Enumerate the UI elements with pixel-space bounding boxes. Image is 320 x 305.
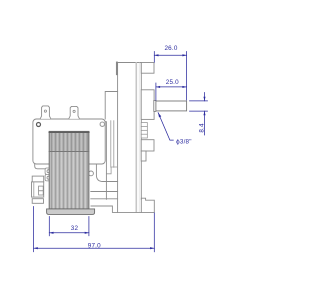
output shaft (156, 101, 187, 111)
stator top dark edge (49, 131, 89, 133)
screw right (100, 122, 104, 126)
lower block (141, 140, 154, 151)
bump inner detail (39, 186, 44, 191)
right bobbin clip circle (89, 171, 94, 176)
arrowheads (34, 54, 206, 249)
svg-text:32: 32 (71, 225, 79, 232)
bump inner vline (33, 183, 35, 197)
screw left (37, 123, 41, 127)
arrows 32 (49, 232, 53, 234)
dim 26.0 extension left (153, 52, 155, 63)
case lower lines right (91, 191, 118, 193)
dim 8.4 ext top (190, 100, 208, 102)
thick edge segment at plate top left (116, 63, 118, 75)
terminal tab 1 (40, 106, 51, 119)
stator mid line (49, 151, 89, 153)
terminal tab 2 (69, 106, 80, 119)
left case corner below plate (35, 165, 46, 169)
shaft washer (154, 100, 156, 111)
arrows 25.0 (156, 86, 160, 88)
gearbox case bottom right (96, 165, 117, 182)
arrows 97.0 (34, 247, 38, 249)
rear plate inner line (135, 63, 137, 212)
bump base flange (32, 199, 43, 204)
top flange boss (141, 63, 154, 74)
front cover plate (33, 119, 105, 164)
gearbox case inner step (106, 167, 117, 174)
dim 32 ext left (48, 217, 50, 236)
leader phi 3/8 (158, 113, 173, 141)
dimension color group (34, 52, 208, 252)
gearbox case right face (105, 122, 106, 200)
dim 97.0 ext right (153, 213, 155, 252)
left bearing bump upper (32, 176, 44, 182)
dim 25.0 line (156, 86, 187, 88)
svg-text:97.0: 97.0 (88, 243, 101, 250)
dim 26.0 line (154, 54, 186, 56)
dim 8.4 arrow lines (204, 93, 206, 101)
dimension texts (71, 45, 206, 250)
svg-text:8.4: 8.4 (198, 123, 205, 133)
arrows 8.4 (203, 97, 205, 101)
lower narrow block (141, 151, 146, 161)
dim 8.4 ext bottom (190, 110, 208, 112)
left bearing bump main (32, 182, 44, 197)
terminal 2 hole (73, 110, 75, 112)
output hub (141, 90, 154, 120)
svg-text:26.0: 26.0 (164, 45, 177, 52)
dim 97.0 line (34, 247, 155, 249)
dim 25.0 extension left (155, 83, 157, 100)
dim 97.0 ext left (33, 207, 35, 252)
stator lamination block (49, 131, 89, 209)
gearbox case top (105, 92, 117, 120)
svg-text:ϕ3/8": ϕ3/8" (176, 138, 192, 145)
bobbin clip top (45, 168, 51, 174)
dim 32 ext right (88, 217, 90, 236)
arrow leader (158, 113, 161, 118)
stator upper section shade (49, 131, 89, 151)
circlip ladder stack (141, 123, 147, 139)
bottom foot (91, 198, 154, 212)
dim 26.0/25.0 extension right (186, 52, 188, 101)
rear mounting plate (118, 63, 142, 213)
svg-text:25.0: 25.0 (166, 79, 179, 86)
case step lines in gap (110, 121, 112, 168)
bobbin clip bottom (45, 174, 51, 181)
stator bottom cap (47, 209, 95, 215)
dim 32 line (49, 232, 89, 234)
arrows 26.0 (154, 54, 158, 56)
terminal 1 hole (44, 110, 46, 112)
